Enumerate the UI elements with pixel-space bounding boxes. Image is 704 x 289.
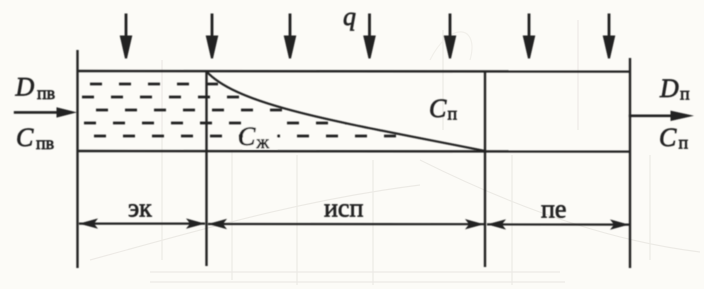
svg-text:п: п [680, 84, 690, 104]
svg-text:C: C [16, 123, 34, 152]
svg-text:C: C [429, 94, 447, 123]
svg-text:п: п [448, 104, 458, 124]
svg-text:C: C [659, 123, 677, 152]
svg-text:D: D [15, 73, 35, 102]
svg-text:q: q [343, 2, 356, 31]
svg-text:C: C [238, 122, 256, 151]
svg-text:исп: исп [324, 194, 363, 223]
svg-text:п: п [679, 132, 689, 152]
svg-text:D: D [659, 74, 679, 103]
svg-text:эк: эк [128, 194, 152, 223]
svg-text:пе: пе [541, 195, 566, 224]
svg-text:ж: ж [256, 132, 270, 152]
svg-text:пв: пв [36, 133, 54, 153]
svg-text:пв: пв [37, 83, 55, 103]
